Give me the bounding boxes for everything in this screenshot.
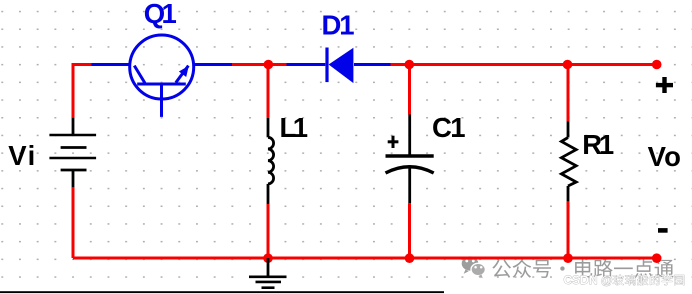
svg-text:Q1: Q1	[144, 0, 177, 29]
svg-text:L1: L1	[280, 112, 309, 143]
svg-text:Vo: Vo	[648, 141, 681, 172]
svg-text:D1: D1	[322, 10, 355, 41]
svg-text:Vi: Vi	[8, 140, 35, 171]
svg-text:C1: C1	[432, 112, 466, 143]
svg-text:R1: R1	[582, 129, 614, 160]
svg-text:CSDN @: CSDN @	[564, 273, 613, 287]
